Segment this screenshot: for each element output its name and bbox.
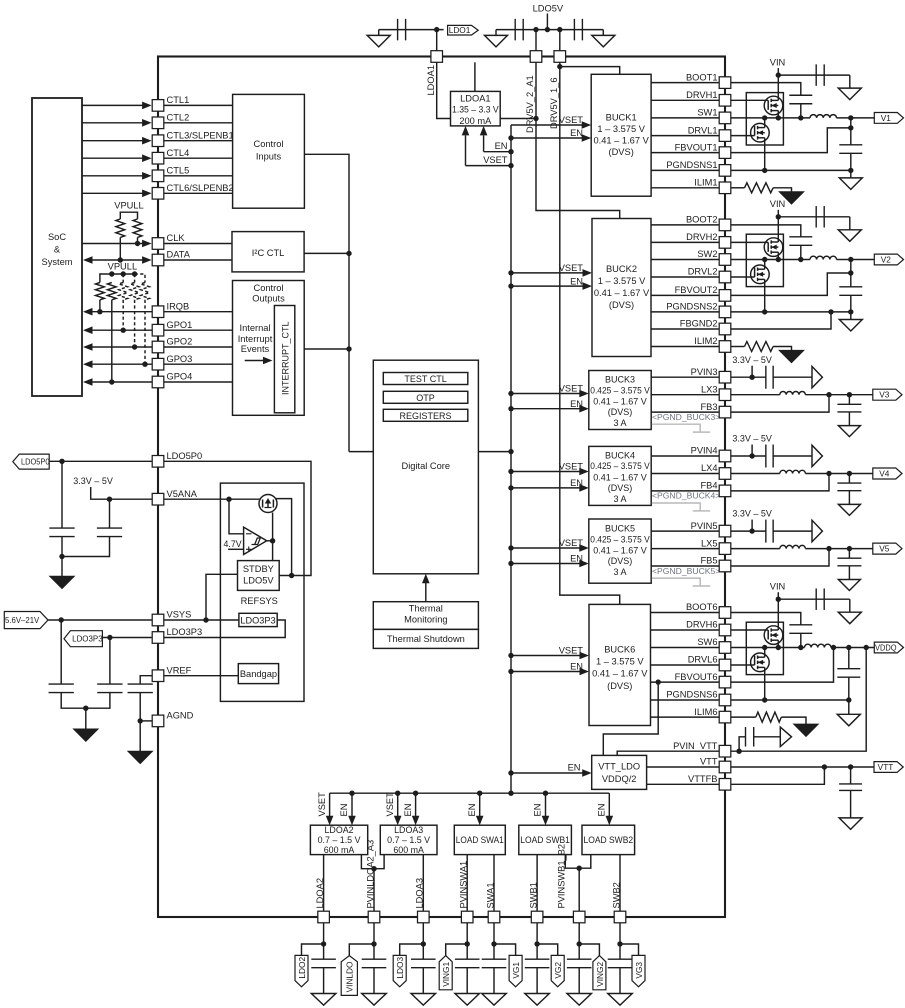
wire VINLDO pin lead: [373, 923, 375, 959]
svg-text:(DVS): (DVS): [609, 300, 634, 310]
wire bottom VSET-EN distribution: [330, 792, 610, 794]
wire ILIM1 from BUCK1: [651, 187, 719, 189]
wire VSYS to STDBY LDO5V: [206, 574, 238, 620]
svg-text:1 – 3.575 V: 1 – 3.575 V: [597, 124, 645, 134]
junction V5ANA cap: [107, 497, 112, 502]
svg-text:VSET: VSET: [559, 538, 584, 548]
junction EN BUCK2 on bus: [508, 283, 513, 288]
wire BOOT6 from BUCK6: [651, 612, 720, 614]
svg-text:VSET: VSET: [559, 646, 584, 656]
svg-text:1 – 3.575 V: 1 – 3.575 V: [598, 276, 646, 286]
wire boot cap to SW BUCK1: [800, 104, 802, 118]
svg-text:LDO5P0: LDO5P0: [21, 457, 50, 467]
svg-text:BUCK3: BUCK3: [605, 375, 635, 385]
wire STDBY LDO5V output: [164, 461, 311, 575]
svg-text:GPO2: GPO2: [167, 337, 193, 347]
wire GPO3 pull-up lead: [144, 300, 146, 364]
svg-text:FBGND2: FBGND2: [680, 319, 718, 329]
wire output cap to pgnd BUCK1: [850, 153, 852, 178]
wire LDO5V stub: [546, 14, 548, 30]
wire EN to BUCK5: [511, 563, 581, 565]
wire FBVOUT1 from BUCK1: [651, 152, 719, 154]
wire PVINSWB1_B2 to pin: [578, 868, 580, 911]
wire output cap lead BUCK1: [850, 118, 852, 145]
arrow VSET LDOA2: [329, 793, 331, 817]
junction VSET BUCK2 on bus: [508, 270, 513, 275]
svg-text:4.7V: 4.7V: [224, 539, 242, 549]
svg-text:VDDQ: VDDQ: [875, 643, 897, 653]
wire CTL5 from SoC: [82, 175, 143, 177]
wire PGNDSNS2 from BUCK2: [651, 311, 719, 313]
capacitor PVIN3: [766, 366, 773, 389]
junction PGNDSNS6 fet source: [762, 697, 767, 702]
pin CLK: [152, 238, 164, 250]
wire PVINSWA1 to pin: [466, 855, 468, 912]
svg-text:TEST CTL: TEST CTL: [404, 374, 446, 384]
pin VSYS: [152, 614, 164, 626]
svg-text:LDO3P3: LDO3P3: [72, 634, 103, 644]
junction SW2 boot cap: [798, 257, 803, 262]
wire LX5 from BUCK5: [651, 548, 719, 550]
ground output BUCK3: [838, 426, 860, 437]
capacitor LDO5V left: [515, 19, 523, 40]
inductor BUCK6: [805, 644, 832, 647]
wire AGND to pin: [140, 720, 152, 722]
wire GPO3 to Control Outputs: [164, 363, 233, 365]
capacitor VTT: [839, 784, 862, 791]
pin LDOA1: [431, 51, 443, 63]
ground output BUCK6: [837, 714, 860, 726]
svg-text:(DVS): (DVS): [608, 407, 633, 417]
svg-text:PVINSWA1: PVINSWA1: [459, 861, 469, 909]
junction GPO3 pull-up: [142, 362, 147, 367]
junction VSET BUCK5 on bus: [508, 545, 513, 550]
inductor BUCK3: [780, 392, 806, 395]
pin SW6: [719, 642, 731, 654]
wire gnd stub left LDO5V: [495, 30, 497, 36]
wire DRVH6 from BUCK6: [651, 629, 720, 631]
svg-text:0.41 – 1.67 V: 0.41 – 1.67 V: [593, 136, 649, 146]
pin DRV5V_2_A1: [530, 51, 542, 63]
svg-text:SW1: SW1: [697, 108, 717, 118]
wire SW6 from BUCK6: [651, 647, 720, 649]
pin ILIM6: [719, 711, 731, 723]
svg-text:0.41 – 1.67 V: 0.41 – 1.67 V: [593, 546, 647, 556]
capacitor on LDO1 output: [398, 19, 406, 40]
junction FBVOUT6 at output: [831, 645, 836, 650]
wire LDO3P3 cap lead: [109, 638, 111, 685]
wire VING2 pin lead: [578, 923, 580, 959]
power FET pair outline BUCK6: [746, 622, 783, 674]
junction Digital Core on VSET-EN bus: [508, 449, 513, 454]
pin CTL2: [152, 117, 164, 129]
wire GPO4 to SoC: [91, 381, 152, 383]
junction FBVOUT6 tap: [656, 679, 661, 684]
wire GPO2 to Control Outputs: [164, 346, 233, 348]
junction GPO1 pull-up: [121, 328, 126, 333]
ground input cap BUCK2: [838, 230, 861, 242]
svg-text:VTT: VTT: [878, 762, 894, 772]
wire DRV5V_2_A1 rail to BUCK2: [536, 62, 620, 218]
pin DRVH2: [719, 237, 731, 249]
wire BOOT2 to boot cap: [719, 225, 801, 237]
wire DRV5V_1_6 branch to BUCK1: [560, 67, 620, 75]
pin LX4: [719, 468, 731, 480]
svg-text:VSET: VSET: [483, 155, 508, 165]
wire ILIM6 from BUCK6: [651, 716, 720, 718]
wire LDO2 cap to gnd: [323, 968, 325, 994]
junction bracket GPO2: [132, 271, 137, 276]
svg-text:ILIM6: ILIM6: [694, 707, 717, 717]
svg-text:VING1: VING1: [441, 962, 451, 987]
pin GPO4: [152, 376, 164, 388]
net tag V1: [874, 113, 903, 124]
svg-text:Internal: Internal: [239, 323, 270, 333]
wire output node to current source: [272, 513, 274, 541]
junction SW2 low-side drain: [762, 257, 767, 262]
capacitor output BUCK1: [839, 145, 862, 154]
wire EN to VTT_LDO: [511, 772, 584, 774]
capacitor on VG2: [525, 959, 550, 968]
svg-text:3 A: 3 A: [613, 567, 626, 577]
pin SW2: [719, 254, 731, 266]
wire LDOA1 pin to block: [437, 62, 451, 118]
wire input cap gnd stub BUCK2: [849, 217, 851, 230]
capacitor output BUCK3: [837, 404, 861, 412]
junction distribution x397.7: [395, 791, 400, 796]
svg-text:SWA1: SWA1: [485, 882, 495, 908]
net tag VDDQ: [874, 642, 903, 653]
wire VIN rail BUCK6: [777, 592, 779, 599]
wire digital bus into Digital Core: [349, 451, 373, 453]
svg-text:V2: V2: [881, 255, 892, 265]
wire FB3 sense: [719, 395, 829, 412]
wire FBVOUT2 sense: [719, 273, 851, 295]
buck converter BUCK1: [591, 74, 651, 196]
pin DATA: [152, 254, 164, 266]
svg-text:PGNDSNS2: PGNDSNS2: [666, 302, 717, 312]
net tag VG3: [632, 955, 645, 986]
wire GPO1 pull-up lead: [122, 300, 124, 330]
wire LDO3P3 cap to gnd: [86, 693, 110, 709]
capacitor PVIN_VTT: [746, 727, 754, 747]
wire PGNDSNS2: [719, 311, 851, 313]
wire GPO4 to Control Outputs: [164, 381, 233, 383]
wire gnd node stub: [85, 708, 87, 729]
ground output BUCK5: [838, 580, 860, 591]
current source in REFSYS: [259, 495, 277, 513]
svg-text:LOAD SWA1: LOAD SWA1: [456, 835, 504, 845]
junction V2 output node: [848, 257, 853, 262]
wire BOOT2 from BUCK2: [651, 224, 719, 226]
pin CTL6/SLPENB2: [152, 188, 164, 200]
wire VREF to Bandgap: [164, 675, 238, 677]
transistor low-side BUCK1: [719, 118, 769, 170]
wire comparator output: [267, 540, 273, 542]
junction PVIN5 cap: [749, 528, 754, 533]
REGISTERS block: [383, 409, 468, 421]
junction EN VTT_LDO on bus: [508, 770, 513, 775]
junction comparator output: [270, 538, 275, 543]
wire PVIN3 cap to arrow: [773, 376, 812, 378]
junction FBVOUT1 at output: [848, 125, 853, 130]
wire output cap lead BUCK5: [848, 549, 850, 559]
ground VG2: [525, 994, 550, 1006]
wire PVIN_VTT cap to arrow: [754, 736, 781, 738]
svg-text:DRVL1: DRVL1: [688, 125, 718, 135]
wire VING2 cap to gnd: [578, 968, 580, 994]
inductor BUCK1: [810, 115, 837, 118]
svg-text:VIN: VIN: [770, 199, 786, 209]
wire Control Inputs to digital bus: [304, 154, 349, 451]
svg-text:PVINSWB1_B2: PVINSWB1_B2: [557, 844, 567, 909]
resistor ILIM1: [745, 183, 774, 193]
wire VG1 tag elbow: [494, 944, 516, 955]
capacitor input BUCK1: [816, 64, 824, 86]
svg-text:LDO3P3: LDO3P3: [167, 627, 203, 637]
svg-text:VSET: VSET: [559, 384, 584, 394]
junction LDO5V at DRV5V_1_6: [557, 27, 562, 32]
junction Control Outputs on digital bus: [346, 346, 351, 351]
svg-text:CTL5: CTL5: [167, 166, 190, 176]
ground input cap BUCK1: [838, 88, 861, 100]
net tag LDO5P0: [13, 454, 50, 469]
transistor high-side BUCK1: [719, 75, 783, 118]
pin CTL1: [152, 100, 164, 112]
junction output cap pgnd BUCK6: [846, 697, 851, 702]
junction VTTFB at VTT: [822, 764, 827, 769]
wire output cap to pgnd BUCK6: [848, 677, 850, 714]
wire GPO pull-up bracket: [100, 274, 135, 283]
svg-text:LX4: LX4: [701, 463, 718, 473]
gray ground net PGND_BUCK5: [652, 578, 710, 586]
power ground ILIM1: [779, 192, 804, 204]
junction PVIN3 cap: [749, 375, 754, 380]
junction VDDQ to PVIN_VTT: [864, 645, 869, 650]
ground VING2: [567, 994, 592, 1006]
wire inductor to output BUCK1: [837, 117, 875, 119]
svg-text:VSET: VSET: [559, 115, 584, 125]
pin VTTFB: [719, 779, 731, 791]
svg-text:VG2: VG2: [553, 962, 563, 979]
junction output cap pgnd BUCK1: [848, 168, 853, 173]
capacitor LDO5V right: [574, 19, 582, 40]
wire VSET to BUCK5: [511, 547, 581, 549]
wire LDOA1 output to DRV5V_2_A1 net: [500, 118, 536, 120]
pin CTL5: [152, 170, 164, 182]
capacitor input BUCK2: [816, 206, 824, 228]
svg-text:FBVOUT6: FBVOUT6: [675, 672, 718, 682]
pin GPO2: [152, 341, 164, 353]
wire FB5 sense: [719, 549, 829, 566]
wire GPO4 pull-up lead: [111, 300, 113, 382]
svg-text:REGISTERS: REGISTERS: [400, 411, 452, 421]
pin VREF: [152, 670, 164, 682]
wire LDO3 tag elbow: [400, 944, 424, 955]
wire LX4 from BUCK4: [651, 473, 719, 475]
wire DRVL6 from BUCK6: [651, 664, 720, 666]
svg-text:GPO4: GPO4: [167, 372, 193, 382]
arrow EN LDOA3: [415, 793, 417, 817]
junction STDBY output: [289, 573, 294, 578]
wire VIN to input cap BUCK2: [778, 216, 850, 218]
junction LDOA1 output at DRV5V_2_A1: [533, 116, 538, 121]
svg-text:Events: Events: [241, 344, 270, 354]
svg-text:3.3V – 5V: 3.3V – 5V: [73, 476, 113, 486]
junction PGNDSNS1 fet source: [762, 168, 767, 173]
buck converter BUCK5: [589, 519, 651, 583]
svg-text:SWB1: SWB1: [529, 882, 539, 908]
wire output cap gnd stub BUCK3: [848, 412, 850, 426]
wire ILIM1 lead: [731, 187, 745, 189]
wire VIN rail BUCK2: [777, 210, 779, 217]
TEST CTL block: [383, 373, 468, 385]
resistor pull-up GPO4: [107, 283, 116, 300]
capacitor output BUCK5: [837, 558, 861, 566]
svg-text:Monitoring: Monitoring: [404, 614, 447, 624]
svg-text:PVIN4: PVIN4: [691, 446, 718, 456]
wire PVIN4 supply stub: [751, 445, 753, 457]
svg-text:0.7 – 1.5 V: 0.7 – 1.5 V: [387, 835, 430, 845]
pin GPO1: [152, 324, 164, 336]
wire CTL1 from SoC: [82, 104, 143, 106]
junction I2C on digital bus: [346, 251, 351, 256]
svg-text:LOAD SWB1: LOAD SWB1: [520, 835, 570, 845]
wire VG1 pin lead: [493, 923, 495, 959]
svg-text:Outputs: Outputs: [252, 293, 285, 303]
svg-text:1 – 3.575 V: 1 – 3.575 V: [596, 657, 644, 667]
junction LDO2 node: [321, 941, 326, 946]
svg-text:3.3V – 5V: 3.3V – 5V: [732, 355, 772, 365]
load switch block LOAD SWA1: [454, 825, 505, 854]
pin SWA1: [488, 911, 500, 923]
wire FBVOUT1 sense: [719, 128, 851, 153]
wire CTL3/SLPENB1 from SoC: [82, 140, 143, 142]
pin SWB1: [531, 911, 543, 923]
resistor pull-up CLK: [133, 219, 142, 237]
svg-text:600 mA: 600 mA: [393, 845, 424, 855]
wire VTT output: [731, 766, 874, 768]
wire LDOA3 output to pin: [422, 855, 424, 912]
wire ILIM2 to pgnd: [773, 347, 791, 351]
wire LDO3P3 output to pin: [164, 620, 285, 638]
wire LX3 node: [719, 394, 780, 396]
svg-text:BOOT2: BOOT2: [686, 215, 718, 225]
wire boot cap to SW BUCK6: [800, 633, 802, 647]
wire VSET to BUCK6: [511, 655, 581, 657]
svg-text:3.3V – 5V: 3.3V – 5V: [732, 509, 772, 519]
buck converter BUCK2: [592, 219, 651, 357]
svg-text:CLK: CLK: [167, 233, 186, 243]
pin PVINSWA1: [461, 911, 473, 923]
resistor pull-up IRQB: [96, 283, 105, 300]
svg-text:DRVL2: DRVL2: [688, 267, 718, 277]
pin LX5: [719, 543, 731, 555]
wire GPO3 to SoC: [91, 363, 152, 365]
svg-text:EN: EN: [403, 804, 413, 817]
analog ground (AGND): [128, 751, 153, 763]
regulator block LDOA2: [310, 825, 367, 855]
wire FBVOUT6 tap to VTT_LDO: [603, 682, 658, 755]
Control Inputs block: [233, 94, 305, 208]
svg-text:SW2: SW2: [697, 249, 717, 259]
wire input cap gnd stub BUCK1: [849, 75, 851, 88]
wire LDO3 pin lead: [422, 923, 424, 959]
wire 4.7V reference stub: [228, 548, 244, 550]
junction PVINSWB1_B2: [577, 866, 582, 871]
pin PVINLDOA2_A3: [368, 911, 380, 923]
capacitor on V5ANA: [97, 528, 122, 537]
capacitor on LDO3: [411, 959, 436, 968]
pin DRVL2: [719, 271, 731, 283]
net tag LDO1: [448, 25, 479, 35]
junction V5ANA node: [226, 497, 231, 502]
wire CTL4 to Control Inputs: [164, 157, 233, 159]
arrow EN LOAD SWA1: [479, 793, 481, 817]
svg-text:V4: V4: [879, 469, 890, 479]
svg-text:VREF: VREF: [167, 665, 192, 675]
junction PVIN_VTT cap tap: [736, 749, 741, 754]
pin LDO3P3: [152, 632, 164, 644]
wire BOOT1 to boot cap: [719, 83, 801, 96]
svg-text:LDO3: LDO3: [395, 957, 405, 979]
wire IRQB to SoC: [91, 311, 152, 313]
svg-text:EN: EN: [467, 804, 477, 817]
wire ILIM1 to pgnd: [773, 188, 791, 192]
ground output BUCK2: [839, 320, 862, 332]
svg-text:EN: EN: [570, 554, 583, 564]
wire GPO2 pull-up lead: [134, 300, 136, 347]
pin FB5: [719, 560, 731, 572]
wire ILIM2 from BUCK2: [651, 346, 719, 348]
svg-text:LDOA2: LDOA2: [324, 825, 353, 835]
svg-text:LDOA3: LDOA3: [415, 878, 425, 909]
wire PVIN4 from BUCK4: [651, 455, 719, 457]
junction FB4 at output: [826, 471, 831, 476]
ground output BUCK4: [838, 504, 860, 515]
wire input cap gnd stub BUCK6: [849, 599, 851, 612]
svg-text:OTP: OTP: [416, 393, 435, 403]
svg-text:VTT_LDO: VTT_LDO: [598, 761, 640, 771]
resistor ILIM6: [756, 712, 782, 722]
junction VSET BUCK6 on bus: [508, 653, 513, 658]
svg-text:FBVOUT2: FBVOUT2: [675, 285, 718, 295]
arrow Thermal Monitoring to Digital Core: [425, 581, 427, 601]
wire VSYS cap to gnd: [61, 693, 86, 709]
wire SWB1 to pin: [536, 855, 538, 912]
wire PGNDSNS6: [719, 699, 849, 701]
pin DRV5V_1_6: [554, 51, 566, 63]
transistor low-side BUCK2: [719, 260, 769, 312]
svg-text:LOAD SWB2: LOAD SWB2: [584, 835, 634, 845]
svg-text:DRV5V_1_6: DRV5V_1_6: [549, 77, 559, 129]
wire EN to BUCK2: [511, 285, 584, 287]
wire BOOT1 from BUCK1: [651, 82, 719, 84]
svg-text:VTTFB: VTTFB: [688, 774, 717, 784]
wire LDO5V rail: [496, 29, 603, 31]
wire gnd stub LDO1 cap: [378, 30, 380, 36]
wire FBGND2 sense: [719, 312, 831, 329]
junction V4 output node: [847, 471, 852, 476]
regulator block LDOA1: [451, 91, 501, 126]
wire SW1 node: [719, 117, 810, 119]
net tag V4: [873, 468, 902, 479]
svg-text:EN: EN: [570, 662, 583, 672]
wire VING1 tag elbow: [446, 944, 468, 956]
junction SW1 high-side source: [776, 115, 781, 120]
capacitor on VREF: [128, 684, 153, 693]
gray ground net PGND_BUCK4: [652, 503, 710, 511]
